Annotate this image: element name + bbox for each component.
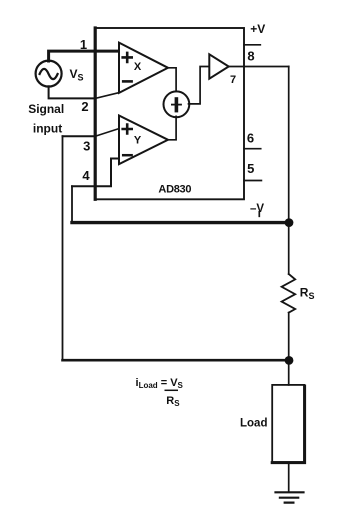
Y minus sign bbox=[123, 154, 131, 157]
wire pin 4 into box and up to Y- bbox=[72, 159, 119, 187]
Y plus sign bbox=[123, 125, 132, 134]
svg-text:Y: Y bbox=[134, 135, 142, 147]
svg-text:1: 1 bbox=[80, 37, 87, 52]
svg-text:+V: +V bbox=[250, 22, 265, 36]
wire pin 8 buffer output to right rail bbox=[229, 66, 289, 68]
wire Rs bottom to load bbox=[288, 313, 290, 385]
svg-text:6: 6 bbox=[247, 131, 254, 146]
right rail wire pin8 down to Rs bbox=[288, 67, 290, 275]
wire pin 1 (thick) from source top to X+ input bbox=[49, 51, 123, 61]
svg-text:8: 8 bbox=[247, 48, 254, 63]
resistor RS zigzag bbox=[282, 274, 296, 313]
buffer amplifier triangle bbox=[209, 54, 228, 78]
node junction dot -V/rail bbox=[285, 218, 294, 227]
svg-text:4: 4 bbox=[82, 168, 90, 183]
summer plus sign bbox=[172, 104, 181, 106]
bottom feedback wire (thick) bbox=[63, 359, 290, 362]
svg-text:input: input bbox=[33, 121, 62, 135]
svg-text:Load: Load bbox=[240, 418, 267, 430]
load box bbox=[272, 385, 304, 462]
X minus sign bbox=[123, 80, 131, 83]
svg-text:2: 2 bbox=[81, 99, 88, 114]
AD830 box left edge (thick) bbox=[94, 28, 97, 199]
+V pin stub bbox=[244, 44, 260, 46]
wire pin 2 diagonal to X- corner bbox=[95, 93, 119, 99]
svg-text:X: X bbox=[134, 61, 142, 73]
source VS circle bbox=[36, 61, 62, 87]
pin 6 stub bbox=[244, 148, 261, 150]
wire summer to buffer bbox=[189, 67, 210, 104]
wire pin 2 from source bottom to box bbox=[49, 86, 96, 98]
summing node circle bbox=[164, 91, 190, 117]
pin 5 stub bbox=[244, 180, 261, 182]
node junction dot Rs bottom/load bbox=[285, 356, 294, 365]
svg-text:–V: –V bbox=[250, 203, 264, 215]
wire pin 4 loop down bbox=[71, 186, 73, 222]
sine wave inside source bbox=[40, 69, 58, 79]
ground symbol bbox=[276, 492, 304, 502]
svg-text:3: 3 bbox=[83, 138, 90, 153]
op-amp Y triangle bbox=[119, 116, 168, 165]
svg-text:AD830: AD830 bbox=[158, 184, 191, 196]
wire load to ground bbox=[288, 463, 290, 492]
-V label tick bbox=[258, 212, 260, 217]
load box right+bottom thick edges bbox=[272, 386, 304, 463]
wire pin 3 into box bbox=[63, 135, 96, 137]
X plus sign bbox=[123, 53, 132, 62]
wire X output to summer bbox=[168, 68, 176, 92]
svg-text:5: 5 bbox=[247, 161, 254, 176]
wire pin 3 feedback down left side bbox=[62, 136, 64, 360]
AD830 box bbox=[95, 28, 244, 199]
wire pin 3 diagonal to Y+ bbox=[95, 128, 120, 136]
transistor X op-amp triangle bbox=[119, 43, 168, 93]
svg-text:Signal: Signal bbox=[28, 102, 64, 116]
wire Y output to summer bbox=[168, 116, 176, 139]
svg-text:7: 7 bbox=[230, 74, 236, 86]
-V wire (thick) to rail junction bbox=[72, 221, 289, 224]
